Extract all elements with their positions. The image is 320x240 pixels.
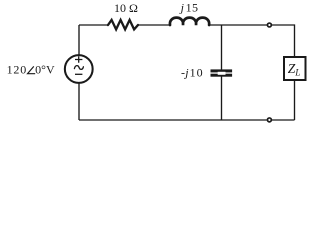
load box ZL — [284, 57, 306, 80]
inductor j15 coil — [170, 18, 209, 25]
wire bottom-right to bottom terminal — [272, 119, 295, 121]
wire source bottom vertical — [78, 83, 80, 120]
capacitor -j10 plates — [211, 69, 233, 72]
svg-text:10: 10 — [190, 66, 204, 80]
source sine tilde — [74, 66, 83, 70]
source V1 circle — [65, 55, 93, 83]
wire terminal to top-right corner and down — [272, 25, 295, 56]
source plus sign — [75, 56, 82, 63]
angle symbol — [28, 66, 36, 73]
wire between resistor and inductor — [138, 24, 170, 26]
svg-text:ZL: ZL — [288, 61, 301, 77]
wire bottom horizontal — [79, 119, 267, 121]
node terminal top (open circle) — [267, 23, 271, 27]
source minus sign — [75, 73, 82, 75]
capacitor middle white notch — [218, 72, 226, 75]
svg-text:120: 120 — [7, 63, 27, 77]
wire capacitor branch top — [221, 25, 223, 70]
wire capacitor branch bottom — [221, 77, 223, 121]
svg-text:0°V: 0°V — [35, 63, 55, 77]
wire source top vertical — [78, 25, 80, 55]
wire top-left horizontal — [79, 24, 108, 26]
wire inductor to top terminal — [209, 24, 267, 26]
svg-text:15: 15 — [186, 0, 199, 14]
node terminal bottom (open circle) — [267, 118, 271, 122]
svg-text:j: j — [179, 0, 185, 14]
resistor R 10ohm zigzag — [108, 20, 138, 30]
wire box bottom down — [294, 80, 296, 120]
svg-text:10 Ω: 10 Ω — [114, 1, 138, 15]
